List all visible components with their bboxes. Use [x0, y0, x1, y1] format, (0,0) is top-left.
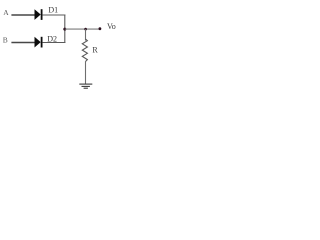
svg-text:Vo: Vo [107, 22, 116, 31]
wire branch down to resistor [85, 29, 87, 40]
svg-text:B: B [3, 36, 8, 45]
diode D1 [35, 9, 43, 20]
diode D2 [35, 37, 43, 48]
wire D2 cathode to bus [42, 42, 65, 44]
wire B to D2 anode [11, 42, 34, 44]
wire output net to Vo terminal [65, 28, 100, 30]
svg-text:D1: D1 [48, 6, 58, 15]
junction at resistor branch [84, 28, 87, 31]
terminal Vo dot [99, 27, 102, 30]
wire D1 cathode to bus [42, 14, 65, 16]
wire A to D1 anode [11, 14, 34, 16]
wire vertical bus joining D1 and D2 outputs [64, 15, 66, 44]
resistor R [82, 39, 87, 62]
junction at bus midpoint [63, 28, 66, 31]
wire resistor to ground [85, 61, 87, 84]
ground [79, 84, 92, 88]
svg-text:R: R [92, 46, 98, 55]
svg-text:A: A [3, 8, 9, 17]
